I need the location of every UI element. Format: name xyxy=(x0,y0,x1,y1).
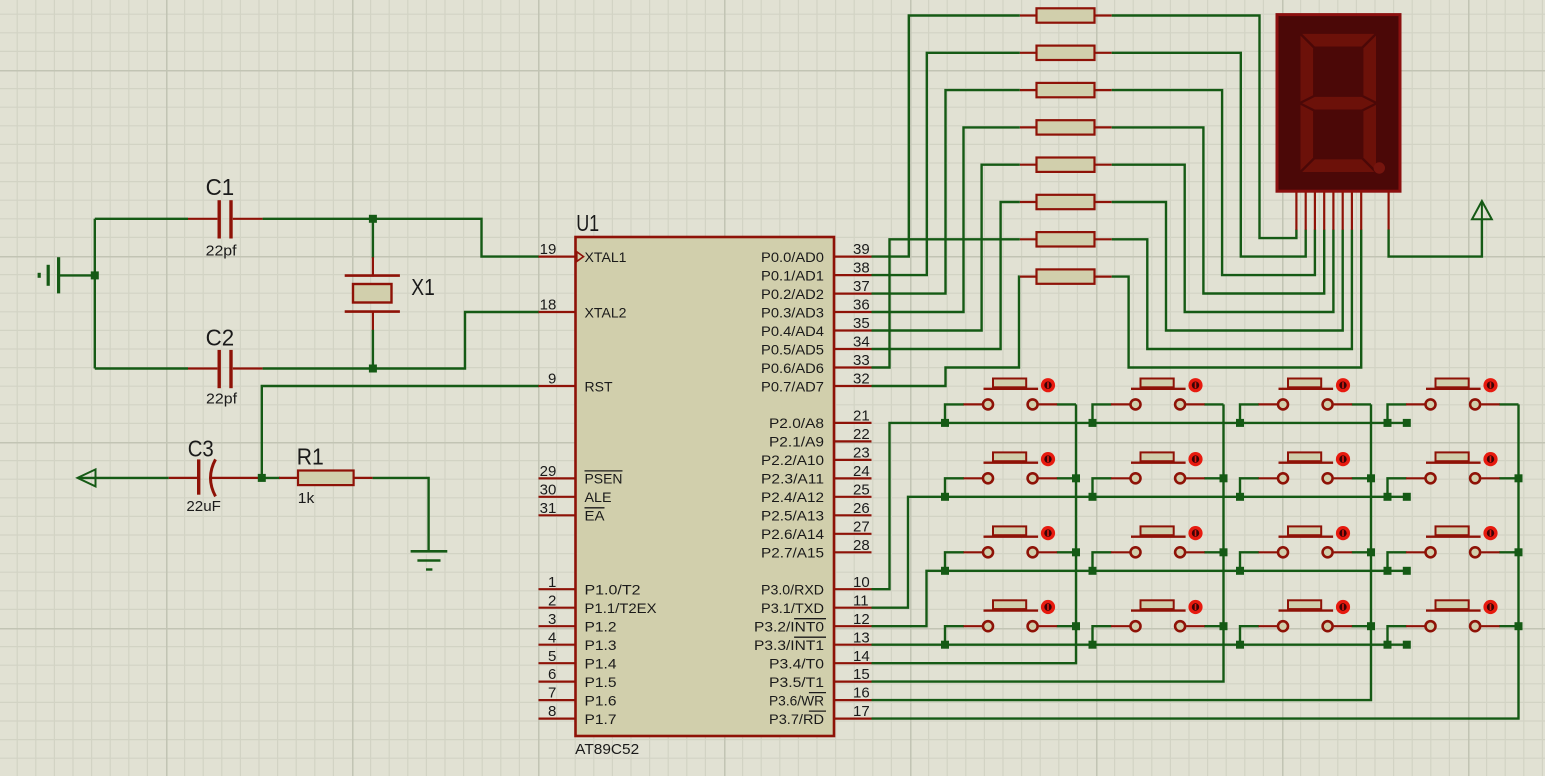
wire resistor to display pin 7 xyxy=(1112,230,1352,350)
node col3 row3 junction xyxy=(1367,548,1375,556)
node row2 drop junction x=1387.5 xyxy=(1384,493,1392,501)
svg-text:11: 11 xyxy=(853,592,869,609)
resistor (P0.1 series) xyxy=(1020,46,1112,60)
svg-text:AT89C52: AT89C52 xyxy=(575,741,639,758)
wire P0.6 to resistor xyxy=(872,239,1020,367)
capacitor C1 xyxy=(188,174,263,259)
svg-text:9: 9 xyxy=(548,371,556,388)
pin 32 P0.7/AD7 xyxy=(761,371,872,395)
pin 33 P0.6/AD6 xyxy=(761,352,872,376)
wire C2 left xyxy=(95,367,188,369)
svg-text:P0.5/AD5: P0.5/AD5 xyxy=(761,341,824,357)
wire resistor to display pin 4 xyxy=(1112,127,1325,293)
arrow (power) left of C3 xyxy=(78,469,96,486)
wire resistor to display pin 6 xyxy=(1112,202,1343,331)
node row4 drop junction x=1092.5 xyxy=(1089,641,1097,649)
node rail-ground junction xyxy=(91,271,99,279)
wire P0.4 to resistor xyxy=(872,165,1020,331)
pin 6 P1.5 xyxy=(539,666,617,690)
svg-text:P0.3/AD3: P0.3/AD3 xyxy=(761,304,824,320)
pin 27 P2.6/A14 xyxy=(761,518,872,542)
svg-text:6: 6 xyxy=(548,666,556,683)
svg-text:P3.0/RXD: P3.0/RXD xyxy=(761,582,824,598)
svg-text:1k: 1k xyxy=(298,490,315,507)
wire keypad column 1 (P3.4) xyxy=(872,404,1077,663)
wire C1 to XTAL1 xyxy=(263,219,539,257)
node col2 row3 junction xyxy=(1220,548,1228,556)
pin 5 P1.4 xyxy=(539,648,617,672)
push button row4 col3 xyxy=(1240,600,1371,645)
svg-text:P3.1/TXD: P3.1/TXD xyxy=(761,600,824,616)
svg-text:2: 2 xyxy=(548,592,556,609)
svg-text:34: 34 xyxy=(853,334,870,351)
svg-text:EA: EA xyxy=(585,508,606,524)
wire RST xyxy=(262,386,539,478)
wire resistor to display pin 8 xyxy=(1112,230,1362,368)
node row1 drop junction x=1387.5 xyxy=(1384,419,1392,427)
wire keypad row 2 xyxy=(872,497,1407,608)
pin 7 P1.6 xyxy=(539,685,617,709)
svg-text:P1.5: P1.5 xyxy=(585,674,617,690)
svg-text:U1: U1 xyxy=(576,210,599,236)
wire P0.2 to resistor xyxy=(872,90,1020,294)
7-segment display body xyxy=(1277,15,1400,192)
pin 14 P3.4/T0 xyxy=(769,648,872,672)
node col1 row3 junction xyxy=(1072,548,1080,556)
wire arrow to C3 xyxy=(78,477,169,479)
wire keypad column 3 (P3.6) xyxy=(872,404,1372,700)
node col2 row2 junction xyxy=(1220,474,1228,482)
svg-text:21: 21 xyxy=(853,408,870,425)
svg-text:26: 26 xyxy=(853,500,870,517)
svg-text:3: 3 xyxy=(548,611,556,628)
wire keypad column 2 (P3.5) xyxy=(872,404,1224,681)
wire P0.0 to resistor xyxy=(872,16,1020,257)
svg-text:P2.3/A11: P2.3/A11 xyxy=(761,471,824,487)
pin 37 P0.2/AD2 xyxy=(761,278,872,302)
node row4 end xyxy=(1403,641,1411,649)
wire resistor to display pin 5 xyxy=(1112,165,1334,312)
pin 3 P1.2 xyxy=(539,611,617,635)
capacitor C2 xyxy=(188,325,263,408)
svg-text:P0.6/AD6: P0.6/AD6 xyxy=(761,360,824,376)
wire keypad row 1 xyxy=(872,423,1407,589)
svg-text:P3.6/WR: P3.6/WR xyxy=(769,692,824,708)
svg-text:XTAL2: XTAL2 xyxy=(585,304,627,320)
chip U1 AT89C52 body xyxy=(575,210,834,758)
crystal X1 xyxy=(345,219,435,369)
svg-text:P1.2: P1.2 xyxy=(585,619,617,635)
svg-text:24: 24 xyxy=(853,463,870,480)
pin 2 P1.1/T2EX xyxy=(539,592,658,616)
svg-text:16: 16 xyxy=(853,685,870,702)
node row2 end xyxy=(1403,493,1411,501)
svg-text:35: 35 xyxy=(853,315,870,332)
wire C1 left xyxy=(95,218,188,220)
svg-text:22pf: 22pf xyxy=(206,391,238,408)
svg-text:12: 12 xyxy=(853,611,870,628)
pin 11 P3.1/TXD xyxy=(761,592,872,616)
svg-text:X1: X1 xyxy=(411,274,435,300)
svg-text:23: 23 xyxy=(853,445,870,462)
pin 34 P0.5/AD5 xyxy=(761,334,872,358)
svg-text:ALE: ALE xyxy=(585,489,612,505)
pin 16 P3.6/WR xyxy=(769,685,872,709)
svg-text:P0.0/AD0: P0.0/AD0 xyxy=(761,249,824,265)
pin 22 P2.1/A9 xyxy=(769,426,872,450)
node crystal bottom junction xyxy=(369,365,377,373)
node row1 drop junction x=945 xyxy=(941,419,949,427)
svg-text:39: 39 xyxy=(853,241,870,258)
pin 28 P2.7/A15 xyxy=(761,537,872,561)
pin 9 RST xyxy=(539,371,613,395)
pin XTAL1 clock marker xyxy=(577,252,584,262)
wire display common to power arrow xyxy=(1389,220,1482,257)
svg-text:C1: C1 xyxy=(206,174,235,200)
svg-text:P3.5/T1: P3.5/T1 xyxy=(769,674,824,690)
svg-text:P1.7: P1.7 xyxy=(585,711,617,727)
node row3 drop junction x=1240 xyxy=(1236,567,1244,575)
svg-text:14: 14 xyxy=(853,648,870,665)
svg-text:22pf: 22pf xyxy=(206,243,238,260)
pin 21 P2.0/A8 xyxy=(769,408,872,432)
svg-text:P2.5/A13: P2.5/A13 xyxy=(761,508,824,524)
wire P0.1 to resistor xyxy=(872,53,1020,275)
pin 38 P0.1/AD1 xyxy=(761,260,872,284)
svg-text:28: 28 xyxy=(853,537,870,554)
capacitor C3 (22uF polarized) xyxy=(169,436,262,515)
svg-text:17: 17 xyxy=(853,703,870,720)
node col3 row2 junction xyxy=(1367,474,1375,482)
pin 18 XTAL2 xyxy=(539,297,627,321)
svg-text:8: 8 xyxy=(548,703,556,720)
pin 23 P2.2/A10 xyxy=(761,445,872,469)
svg-text:RST: RST xyxy=(585,378,613,394)
node col4 row4 junction xyxy=(1515,622,1523,630)
pin 13 P3.3/INT1 xyxy=(754,629,872,653)
node col1 row2 junction xyxy=(1072,474,1080,482)
wire ground to rail xyxy=(60,274,95,276)
push button row2 col3 xyxy=(1240,452,1371,497)
pin 26 P2.5/A13 xyxy=(761,500,872,524)
svg-text:P2.0/A8: P2.0/A8 xyxy=(769,415,824,431)
svg-text:36: 36 xyxy=(853,297,870,314)
resistor (P0.0 series) xyxy=(1020,8,1112,22)
wire C2 to XTAL2 xyxy=(263,312,539,369)
ground (below R1) xyxy=(411,551,448,569)
pin 17 P3.7/RD xyxy=(769,703,872,727)
pin 30 ALE xyxy=(539,481,612,505)
svg-text:22: 22 xyxy=(853,426,870,443)
svg-text:13: 13 xyxy=(853,629,870,646)
svg-text:P2.7/A15: P2.7/A15 xyxy=(761,545,824,561)
node row2 drop junction x=1092.5 xyxy=(1089,493,1097,501)
node row1 drop junction x=1240 xyxy=(1236,419,1244,427)
svg-text:15: 15 xyxy=(853,666,870,683)
pin 35 P0.4/AD4 xyxy=(761,315,872,339)
svg-text:37: 37 xyxy=(853,278,870,295)
node col3 row4 junction xyxy=(1367,622,1375,630)
svg-text:P2.6/A14: P2.6/A14 xyxy=(761,526,824,542)
svg-text:22uF: 22uF xyxy=(186,498,221,515)
resistor (P0.7 series) xyxy=(1020,269,1112,283)
svg-text:P0.7/AD7: P0.7/AD7 xyxy=(761,378,824,394)
svg-text:19: 19 xyxy=(540,241,557,258)
svg-text:31: 31 xyxy=(540,500,557,517)
node row3 drop junction x=1092.5 xyxy=(1089,567,1097,575)
wire keypad row 3 xyxy=(872,571,1407,626)
wire left rail C1-C2 xyxy=(94,219,96,369)
pin 29 PSEN xyxy=(539,463,623,487)
node row4 drop junction x=945 xyxy=(941,641,949,649)
svg-text:PSEN: PSEN xyxy=(585,471,623,487)
svg-text:38: 38 xyxy=(853,260,870,277)
svg-text:P2.2/A10: P2.2/A10 xyxy=(761,452,824,468)
svg-text:1: 1 xyxy=(548,574,556,591)
svg-text:XTAL1: XTAL1 xyxy=(585,249,627,265)
pin 39 P0.0/AD0 xyxy=(761,241,872,265)
svg-text:P3.7/RD: P3.7/RD xyxy=(769,711,824,727)
resistor (P0.3 series) xyxy=(1020,120,1112,134)
node crystal top junction xyxy=(369,215,377,223)
svg-text:R1: R1 xyxy=(297,444,324,470)
pin 15 P3.5/T1 xyxy=(769,666,872,690)
resistor (P0.2 series) xyxy=(1020,83,1112,97)
svg-text:P1.4: P1.4 xyxy=(585,656,617,672)
node C3/R1/RST junction xyxy=(258,474,266,482)
push button row2 col2 xyxy=(1093,452,1224,497)
push button row3 col3 xyxy=(1240,526,1371,571)
svg-text:P1.0/T2: P1.0/T2 xyxy=(585,582,641,598)
svg-text:P1.3: P1.3 xyxy=(585,637,617,653)
push button row2 col4 xyxy=(1388,452,1519,497)
svg-text:P0.1/AD1: P0.1/AD1 xyxy=(761,267,824,283)
node row1 drop junction x=1092.5 xyxy=(1089,419,1097,427)
svg-text:25: 25 xyxy=(853,481,870,498)
node row3 end xyxy=(1403,567,1411,575)
push button row1 col2 xyxy=(1093,378,1224,423)
pin 12 P3.2/INT0 xyxy=(754,611,872,635)
node row4 drop junction x=1387.5 xyxy=(1384,641,1392,649)
wire keypad column 4 (P3.7) xyxy=(872,404,1519,718)
resistor R1 xyxy=(262,444,373,507)
push button row3 col1 xyxy=(945,526,1076,571)
pin 24 P2.3/A11 xyxy=(761,463,872,487)
push button row3 col4 xyxy=(1388,526,1519,571)
push button row4 col2 xyxy=(1093,600,1224,645)
pin 8 P1.7 xyxy=(539,703,617,727)
push button row4 col1 xyxy=(945,600,1076,645)
display pins xyxy=(1296,191,1388,230)
pin 36 P0.3/AD3 xyxy=(761,297,872,321)
push button row1 col4 xyxy=(1388,378,1519,423)
push button row4 col4 xyxy=(1388,600,1519,645)
push button row2 col1 xyxy=(945,452,1076,497)
svg-text:P2.1/A9: P2.1/A9 xyxy=(769,434,824,450)
svg-text:5: 5 xyxy=(548,648,556,665)
pin 31 EA xyxy=(539,500,606,524)
node row3 drop junction x=945 xyxy=(941,567,949,575)
push button row3 col2 xyxy=(1093,526,1224,571)
resistor (P0.5 series) xyxy=(1020,195,1112,209)
node col2 row4 junction xyxy=(1220,622,1228,630)
svg-text:32: 32 xyxy=(853,371,870,388)
svg-text:29: 29 xyxy=(540,463,557,480)
pin 1 P1.0/T2 xyxy=(539,574,641,598)
push button row1 col1 xyxy=(945,378,1076,423)
node row1 end xyxy=(1403,419,1411,427)
node row4 drop junction x=1240 xyxy=(1236,641,1244,649)
svg-text:P2.4/A12: P2.4/A12 xyxy=(761,489,824,505)
wire resistor to display pin 1 xyxy=(1112,16,1297,239)
wire keypad row 4 xyxy=(872,644,1407,646)
power arrow (up) xyxy=(1472,201,1492,219)
pin 25 P2.4/A12 xyxy=(761,481,872,505)
wire P0.7 to resistor xyxy=(872,277,1020,386)
svg-text:33: 33 xyxy=(853,352,870,369)
svg-text:P3.3/INT1: P3.3/INT1 xyxy=(754,637,824,653)
svg-text:27: 27 xyxy=(853,518,870,535)
resistor (P0.4 series) xyxy=(1020,158,1112,172)
node row3 drop junction x=1387.5 xyxy=(1384,567,1392,575)
svg-text:P3.4/T0: P3.4/T0 xyxy=(769,656,824,672)
pin 19 XTAL1 xyxy=(539,241,627,265)
svg-text:C2: C2 xyxy=(206,325,235,351)
wire resistor to display pin 2 xyxy=(1112,53,1306,257)
node col4 row2 junction xyxy=(1515,474,1523,482)
pin 10 P3.0/RXD xyxy=(761,574,872,598)
svg-text:18: 18 xyxy=(540,297,557,314)
svg-text:P1.6: P1.6 xyxy=(585,692,617,708)
push button row1 col3 xyxy=(1240,378,1371,423)
svg-text:P0.4/AD4: P0.4/AD4 xyxy=(761,323,824,339)
resistor (P0.6 series) xyxy=(1020,232,1112,246)
pin 4 P1.3 xyxy=(539,629,617,653)
svg-text:P3.2/INT0: P3.2/INT0 xyxy=(754,619,824,635)
svg-text:10: 10 xyxy=(853,574,870,591)
svg-text:C3: C3 xyxy=(188,436,214,462)
svg-text:P1.1/T2EX: P1.1/T2EX xyxy=(585,600,658,616)
node row2 drop junction x=1240 xyxy=(1236,493,1244,501)
svg-text:30: 30 xyxy=(540,481,557,498)
node row2 drop junction x=945 xyxy=(941,493,949,501)
wire R1 to ground xyxy=(373,478,429,551)
svg-text:7: 7 xyxy=(548,685,556,702)
wire P0.5 to resistor xyxy=(872,202,1020,349)
svg-text:P0.2/AD2: P0.2/AD2 xyxy=(761,286,824,302)
ground (left power-rail ground) xyxy=(39,257,58,293)
svg-text:4: 4 xyxy=(548,629,556,646)
node col4 row3 junction xyxy=(1515,548,1523,556)
wire P0.3 to resistor xyxy=(872,127,1020,312)
wire resistor to display pin 3 xyxy=(1112,90,1315,275)
node col1 row4 junction xyxy=(1072,622,1080,630)
